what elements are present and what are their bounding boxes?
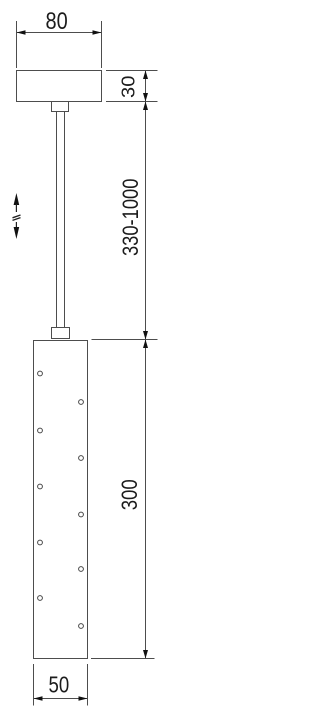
dimension 80: dimension line [17,32,102,34]
dim 30: bottom arrowhead (down) [143,93,148,102]
svg-text:50: 50 [49,672,70,698]
dimension 80: right arrowhead [93,30,102,35]
svg-text:30: 30 [119,76,139,98]
perforation hole 10 [79,624,84,629]
bottom cable connector [52,328,70,339]
right vertical dimension line [145,71,147,659]
top cable connector [52,102,69,112]
dim 30: top arrowhead (up) [143,71,148,80]
perforation hole 5 [38,484,43,489]
right extension line: canopy top [106,70,158,72]
perforation hole 1 [38,371,43,376]
perforation hole 9 [38,596,43,601]
perforation hole 4 [79,456,84,461]
dim 300: top arrowhead (up) [143,340,148,349]
adjustable height symbol: down arrow [15,222,17,228]
dimension 80: left arrowhead [17,30,26,35]
adjustable height symbol: up arrow [14,193,20,205]
perforation hole 3 [38,428,43,433]
perforation hole 8 [79,567,84,572]
canopy rectangle [17,71,102,102]
svg-text:330-1000: 330-1000 [118,179,143,256]
cable right line [64,112,66,328]
adjustable height symbol: break squiggle [13,215,21,218]
dimension 80: extension line right [101,21,103,68]
perforation hole 7 [38,540,43,545]
dim 330-1000: top arrowhead (up) [143,102,148,111]
right extension line: tube bottom [91,658,155,660]
perforation hole 2 [79,400,84,405]
dimension 50: right arrowhead [79,696,88,701]
cable left line [56,112,58,328]
dimension 50: left arrowhead [34,696,43,701]
dimension 50: extension line left [33,664,35,706]
svg-text:300: 300 [117,479,142,510]
dim 330-1000: bottom arrowhead (down) [143,331,148,340]
right extension line: tube top [92,339,158,341]
dimension 50: dimension line [34,698,88,700]
lamp tube body [34,341,88,659]
dimension 80: extension line left [16,21,18,68]
right extension line: canopy bottom [106,101,158,103]
perforation hole 6 [79,512,84,517]
dim 300: bottom arrowhead (down) [143,650,148,659]
svg-text:80: 80 [46,8,68,35]
dimension 50: extension line right [87,664,89,706]
